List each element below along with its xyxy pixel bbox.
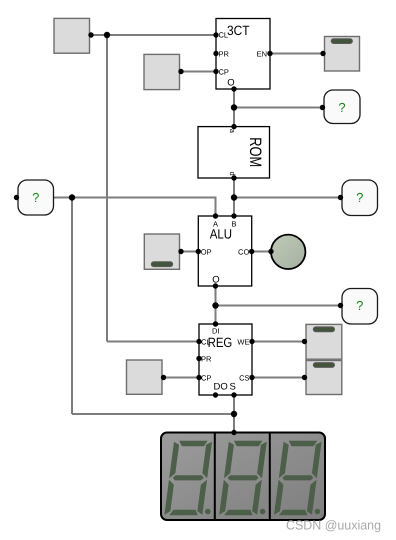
counter U1 3CT (213, 19, 272, 92)
junction node S (231, 411, 237, 417)
input S2 (144, 54, 184, 89)
wire ROM d to probe PR3 (234, 197, 342, 199)
svg-text:OP: OP (201, 247, 212, 256)
ROM U2 (198, 124, 270, 181)
svg-text:?: ? (338, 100, 345, 115)
svg-text:PR: PR (219, 49, 230, 58)
svg-text:PR: PR (201, 354, 212, 363)
wire counter O to probe PR2 (234, 107, 324, 109)
wire counter EN to switch SW1 (270, 53, 325, 55)
svg-text:EN: EN (257, 49, 267, 58)
input S1 (54, 18, 94, 53)
probe PR2 (320, 90, 360, 124)
wire probe PR1 to ALU A (54, 198, 216, 217)
svg-text:CO: CO (238, 247, 249, 256)
svg-text:3CT: 3CT (227, 23, 250, 38)
svg-text:DI: DI (212, 326, 220, 335)
register U4 REG (196, 321, 254, 397)
wire clock net: input S1 to counter CL (90, 34, 217, 36)
svg-text:DO: DO (214, 381, 228, 392)
digit 1 segments (164, 441, 212, 516)
digit 3 segments (274, 441, 322, 516)
wire ALU O to probe PR4 (216, 305, 343, 307)
probe PR1 (14, 180, 54, 215)
wire ROM d to ALU B (233, 178, 235, 216)
junction counter O node (231, 104, 237, 110)
svg-text:REG: REG (208, 335, 233, 350)
svg-text:ALU: ALU (210, 227, 232, 242)
wire S3 to REG CP (162, 377, 199, 379)
svg-text:?: ? (356, 298, 363, 313)
svg-text:WE: WE (237, 337, 249, 346)
svg-text:d: d (228, 172, 237, 176)
svg-text:O: O (227, 78, 234, 89)
seven-segment display U5 (161, 430, 325, 520)
wire clock net vertical drop (106, 35, 108, 342)
svg-text:CSDN @uuxiang: CSDN @uuxiang (286, 518, 381, 533)
wire ALU CO to LED D1 (252, 251, 271, 253)
junction node A (69, 194, 75, 200)
ALU U3 (196, 213, 255, 288)
svg-text:CP: CP (201, 373, 211, 382)
switch SW2 (144, 234, 183, 269)
digit 2 decimal point (260, 509, 266, 515)
svg-text:?: ? (32, 190, 39, 205)
wire REG WE to switch SW3 (252, 341, 306, 343)
wire node A to node S (72, 413, 234, 415)
switch SW3 (302, 324, 342, 359)
wire REG CS to switch SW4 (252, 377, 306, 379)
svg-text:CS: CS (239, 373, 249, 382)
digit 3 decimal point (315, 509, 321, 515)
switch SW4 (302, 361, 342, 395)
svg-text:ROM: ROM (246, 137, 264, 167)
junction ROM d node (231, 194, 237, 200)
LED D1 (268, 235, 305, 269)
svg-text:B: B (231, 219, 236, 228)
svg-text:?: ? (356, 190, 363, 205)
wire clock net to REG CL (107, 341, 199, 343)
probe PR3 (338, 180, 378, 216)
wire S2 to counter CP (180, 71, 217, 73)
switch SW1 (320, 37, 359, 72)
probe PR4 (338, 289, 378, 325)
wire node A vertical (71, 198, 73, 415)
display input pin (231, 430, 236, 435)
junction ALU O node (212, 302, 218, 308)
svg-text:S: S (230, 381, 236, 392)
digit 2 segments (219, 441, 267, 516)
input S3 (127, 360, 167, 394)
svg-text:CP: CP (219, 67, 229, 76)
wire switch SW2 to ALU OP (180, 251, 199, 253)
junction clock node (104, 32, 110, 38)
wire counter O to ROM a (233, 89, 235, 127)
svg-text:O: O (212, 274, 219, 285)
digit 1 decimal point (205, 509, 211, 515)
wire REG S to display (233, 395, 235, 433)
wire ALU O to REG DI (215, 286, 217, 324)
